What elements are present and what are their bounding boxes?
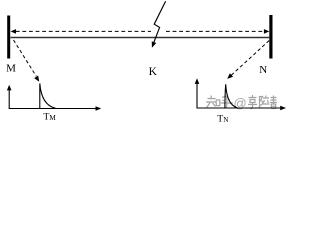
T_N pulse spike — [225, 84, 237, 108]
arrowhead into plate N — [264, 29, 270, 34]
right plate N — [269, 15, 272, 59]
T_M pulse spike — [40, 83, 56, 108]
svg-text:M: M — [6, 63, 16, 75]
spark source K: lightning bolt with arrow — [153, 1, 165, 43]
wire: solid line M-N — [11, 37, 270, 39]
wire: dashed propagation line left segment — [16, 30, 151, 32]
watermark 知乎@郭靖 (drawn strokes) — [206, 96, 233, 109]
T_M graph y-axis — [8, 89, 10, 109]
svg-text:N: N — [259, 64, 267, 76]
T_M graph x-axis — [9, 108, 97, 110]
dashed arrow from M down to T_M pulse — [14, 40, 37, 76]
svg-text:TM: TM — [43, 112, 56, 123]
dashed arrow from N down to T_N pulse — [231, 41, 269, 76]
svg-text:K: K — [149, 66, 158, 78]
left plate M — [7, 16, 10, 59]
wire: dashed propagation line right segment — [166, 30, 264, 32]
arrowhead into plate M — [11, 29, 17, 34]
svg-text:TN: TN — [217, 113, 229, 124]
T_N graph x-axis — [197, 107, 282, 109]
T_N graph y-axis — [196, 83, 198, 109]
